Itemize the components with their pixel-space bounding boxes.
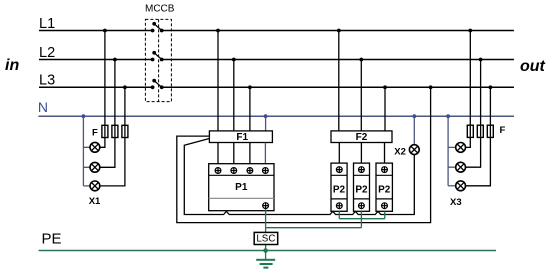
svg-text:X1: X1 (89, 196, 101, 207)
svg-text:X2: X2 (394, 146, 406, 157)
svg-text:N: N (38, 99, 48, 115)
svg-text:X3: X3 (450, 197, 462, 208)
svg-text:L3: L3 (39, 73, 55, 89)
svg-text:P1: P1 (235, 182, 248, 193)
svg-text:out: out (520, 58, 546, 75)
svg-text:L2: L2 (39, 45, 55, 61)
svg-text:F1: F1 (236, 132, 248, 143)
svg-text:in: in (5, 57, 19, 74)
svg-text:F2: F2 (356, 132, 368, 143)
svg-text:P2: P2 (378, 185, 391, 196)
svg-text:P2: P2 (355, 185, 368, 196)
svg-text:LSC: LSC (256, 233, 275, 244)
svg-text:L1: L1 (39, 16, 55, 32)
svg-text:P2: P2 (333, 185, 346, 196)
svg-text:MCCB: MCCB (145, 4, 175, 15)
svg-text:PE: PE (42, 231, 62, 248)
svg-text:F: F (92, 127, 98, 138)
svg-text:F: F (500, 125, 506, 136)
